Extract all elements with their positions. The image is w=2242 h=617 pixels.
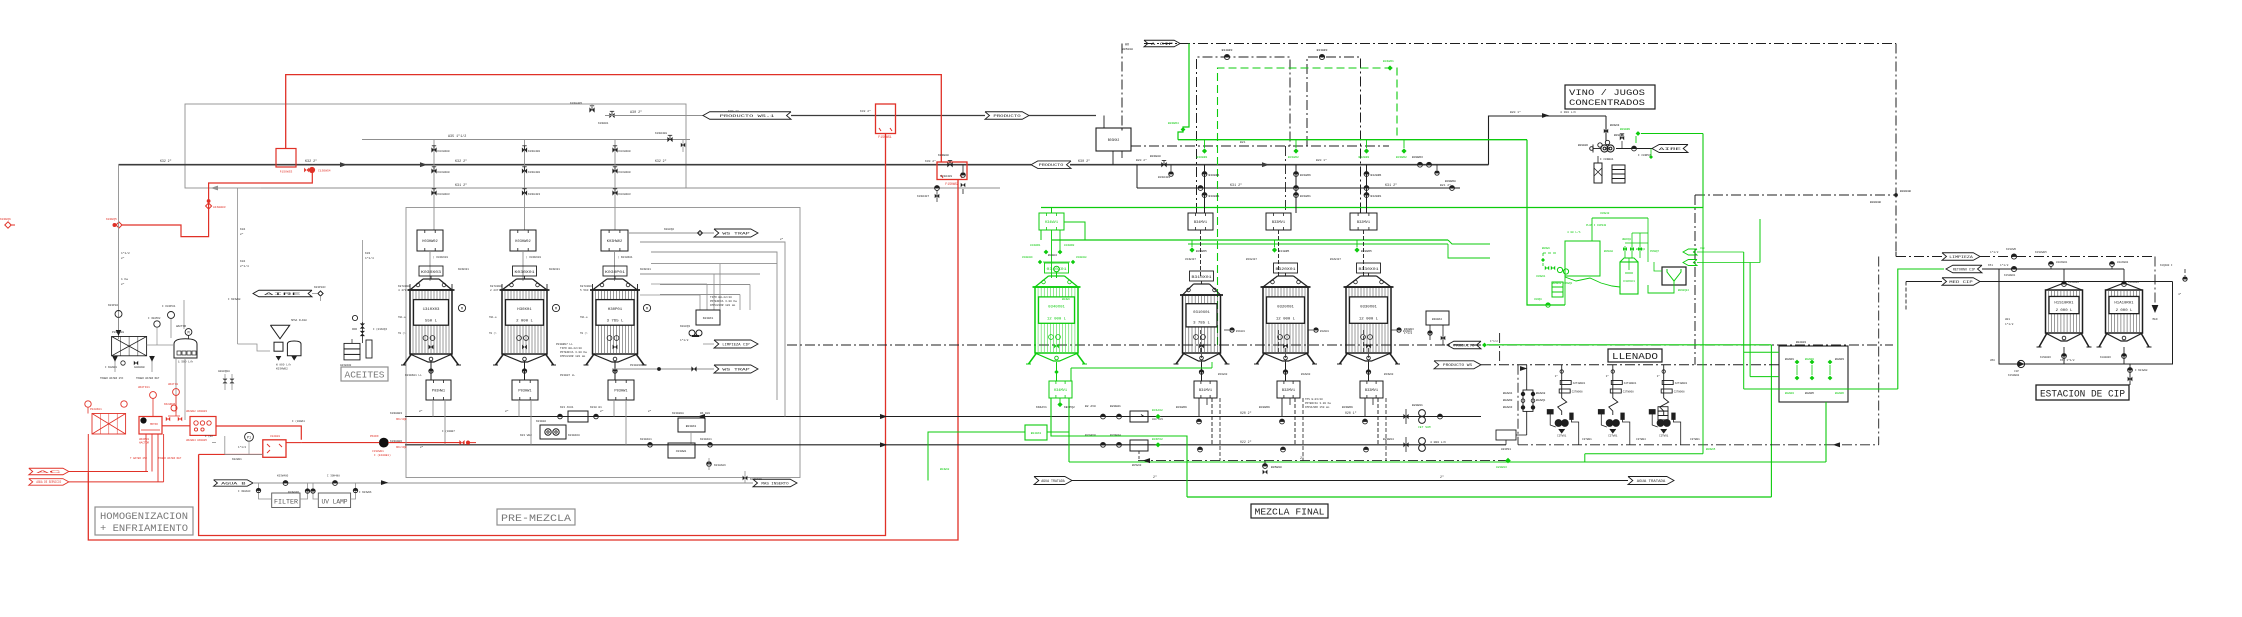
- svg-text:I K03W08: I K03W08: [228, 298, 241, 301]
- svg-text:H03HW02: H03HW02: [422, 240, 437, 244]
- svg-text:K31 2": K31 2": [1230, 183, 1242, 188]
- svg-text:M: M: [187, 332, 189, 336]
- wire dash drop 2: [1385, 398, 1387, 461]
- green main header y140: [1178, 139, 1527, 141]
- svg-text:I C09WA1: I C09WA1: [1600, 158, 1614, 161]
- wire manifold to green tank: [1030, 230, 1075, 278]
- svg-text:4 300 L/h: 4 300 L/h: [1560, 110, 1576, 114]
- label LLENADO: [1608, 349, 1662, 362]
- svg-text:P03HW1: P03HW1: [614, 389, 627, 393]
- svg-text:K03H400: K03H400: [438, 150, 450, 153]
- svg-text:TW1-a: TW1-a: [398, 316, 406, 319]
- svg-text:WS WH1: WS WH1: [700, 412, 710, 415]
- green return to row: [1585, 208, 1703, 462]
- wire llenado dash boundary: [1694, 195, 1696, 365]
- svg-text:AGUA TRATADA: AGUA TRATADA: [1637, 480, 1667, 484]
- svg-text:1"1/2: 1"1/2: [1990, 250, 1999, 254]
- svg-text:B32MV1: B32MV1: [1282, 389, 1295, 393]
- svg-text:1 Kw: 1 Kw: [121, 278, 128, 281]
- wire manifold to tank 1: [1278, 230, 1280, 352]
- svg-text:B20 2": B20 2": [1136, 158, 1147, 162]
- filler unit 0: [1547, 365, 1585, 445]
- svg-text:+ ENFRIAMIENTO: + ENFRIAMIENTO: [100, 523, 188, 535]
- svg-text:K03H601: K03H601: [549, 268, 560, 271]
- manifold premix1 bottom: [426, 361, 451, 400]
- svg-text:IMPULSOR 150 mm: IMPULSOR 150 mm: [1305, 406, 1330, 409]
- wire drop to rows 0: [1197, 398, 1212, 452]
- svg-text:034W409: 034W409: [1022, 256, 1033, 259]
- svg-text:K03W401: K03W401: [640, 438, 652, 441]
- svg-text:PRODUCTO WS-1: PRODUCTO WS-1: [720, 115, 775, 119]
- svg-text:K878000: K878000: [580, 285, 592, 288]
- svg-text:TW1-a: TW1-a: [489, 316, 497, 319]
- svg-text:M: M: [461, 308, 463, 312]
- svg-text:K03H400: K03H400: [619, 150, 631, 153]
- svg-text:K878000: K878000: [490, 285, 502, 288]
- svg-text:1": 1": [1657, 374, 1661, 378]
- svg-text:12 000 L: 12 000 L: [1276, 317, 1296, 321]
- svg-text:K02W01: K02W01: [232, 458, 242, 461]
- red pump manifold: [186, 410, 216, 442]
- svg-text:HO2W04 HO2W05: HO2W04 HO2W05: [186, 439, 207, 442]
- wire premix drop rows 1: [505, 400, 531, 445]
- wire CIP dash header top: [1144, 43, 1896, 45]
- row cluster A: [558, 406, 602, 422]
- svg-text:F1S0WS2: F1S0WS2: [945, 182, 958, 186]
- svg-text:B32WR9: B32WR9: [1259, 406, 1270, 409]
- uv box: [313, 483, 356, 508]
- svg-text:2 000 L: 2 000 L: [2116, 309, 2134, 313]
- wire dash col t4: [1285, 146, 1287, 213]
- wire premix col 0: [431, 140, 450, 231]
- wire left drop: [119, 165, 130, 339]
- info text tank3 mezcla: [1305, 397, 1331, 409]
- svg-text:3 785 L: 3 785 L: [1193, 321, 1211, 325]
- svg-text:B0000B: B0000B: [1900, 190, 1911, 193]
- svg-text:020W03: 020W03: [1496, 466, 1507, 469]
- svg-text:B060Q04: B060Q04: [1678, 289, 1689, 292]
- svg-text:I K03P01: I K03P01: [162, 305, 176, 308]
- svg-text:K31 2": K31 2": [455, 183, 467, 188]
- premix tank top stubs: [410, 284, 638, 290]
- svg-text:B02WR5: B02WR5: [1805, 392, 1815, 395]
- manifold tank1 bottom: [1194, 362, 1217, 398]
- red instruments top: [138, 383, 179, 416]
- svg-text:K03H400: K03H400: [528, 171, 540, 174]
- svg-text:2": 2": [121, 256, 125, 260]
- filler unit 1: [1598, 365, 1636, 445]
- valve on dash box 2: [1317, 49, 1328, 60]
- svg-text:B31W407: B31W407: [1246, 258, 1257, 261]
- svg-text:PRODUCTO WS: PRODUCTO WS: [1443, 364, 1472, 368]
- svg-text:RETORNO CIP: RETORNO CIP: [1953, 268, 1975, 272]
- svg-text:B20HW1: B20HW1: [1110, 405, 1121, 408]
- svg-text:I 30HA03: I 30HA03: [238, 490, 251, 493]
- svg-text:POTENCIA 3.00 Kw: POTENCIA 3.00 Kw: [710, 300, 737, 303]
- svg-text:K03W407: K03W407: [917, 195, 929, 198]
- svg-text:B05W00: B05W00: [1271, 466, 1282, 469]
- svg-text:K03P02: K03P02: [108, 304, 118, 307]
- wire main product header y165: [119, 164, 1489, 166]
- svg-text:B32WR6: B32WR6: [1371, 174, 1382, 177]
- premix tank motors: [398, 285, 651, 312]
- green from big box right: [1744, 269, 1944, 389]
- label MEZCLA FINAL: [1251, 504, 1328, 518]
- vino gear pump: [1578, 124, 1620, 161]
- wire dash box 1: [1197, 57, 1291, 213]
- wire premix drop rows 0: [419, 400, 445, 445]
- svg-text:034W408: 034W408: [1076, 256, 1087, 259]
- wire CIP dash mid: [1695, 190, 1911, 204]
- svg-text:C2TW04: C2TW04: [1636, 438, 1646, 441]
- svg-text:K03HA06: K03HA06: [714, 464, 726, 467]
- wire dash row y461: [1138, 460, 1508, 462]
- svg-text:MOTOR: MOTOR: [150, 423, 158, 426]
- svg-text:AIRE: AIRE: [264, 293, 301, 297]
- svg-text:H1A10R01: H1A10R01: [2114, 301, 2134, 305]
- manifold green tank bottom: [1049, 362, 1072, 398]
- svg-text:B02WR6: B02WR6: [1835, 392, 1845, 395]
- svg-text:1"1/2: 1"1/2: [238, 445, 246, 449]
- tank 0330X01: [1337, 263, 1400, 364]
- svg-text:B30WX2: B30WX2: [1432, 318, 1442, 321]
- svg-text:K1S0W5: K1S0W5: [2006, 248, 2016, 251]
- svg-text:HOMOGENIZACION: HOMOGENIZACION: [100, 511, 188, 523]
- svg-text:K03W80A: K03W80A: [672, 412, 684, 415]
- svg-text:I 30H488: I 30H488: [327, 475, 340, 478]
- svg-text:I (02: I (02: [205, 434, 213, 438]
- svg-text:| K03H601: | K03H601: [526, 255, 541, 259]
- green drop valve col 2: [1354, 240, 1372, 253]
- svg-text:TIPO WH-22/20: TIPO WH-22/20: [560, 346, 582, 350]
- svg-text:K03H601: K03H601: [458, 268, 469, 271]
- svg-text:K30 2": K30 2": [1078, 159, 1090, 164]
- svg-text:2"1/4: 2"1/4: [240, 264, 249, 268]
- svg-text:MED: MED: [2152, 318, 2157, 321]
- manifold tank3 bottom: [1360, 362, 1383, 398]
- red inner border link: [199, 453, 263, 455]
- green tank top fitting: [1022, 254, 1087, 278]
- green manifold feed y368: [1071, 362, 1212, 381]
- svg-text:K03H400: K03H400: [619, 171, 631, 174]
- green valve col 2: [1359, 140, 1370, 159]
- wire dash drop 1: [1302, 398, 1304, 461]
- green cip supply line: [1482, 343, 1771, 348]
- svg-text:C09Q0: C09Q0: [1534, 298, 1542, 301]
- manifold green tank top: [1039, 213, 1064, 230]
- cip valve top: [2006, 248, 2017, 259]
- svg-text:B31W00: B31W00: [1218, 373, 1228, 376]
- misc tiny labels batch: [420, 237, 1716, 471]
- green vino drop: [1649, 149, 1653, 160]
- green valve after pump row1: [1152, 409, 1163, 419]
- svg-text:MAS INSERTO: MAS INSERTO: [761, 482, 788, 486]
- svg-text:TOWER WATER RET: TOWER WATER RET: [158, 457, 182, 460]
- svg-text:H30P01: H30P01: [608, 308, 623, 312]
- valve corridor mid: [655, 132, 685, 152]
- skid 1500L: [147, 300, 197, 420]
- svg-text:K03W408: K03W408: [655, 132, 667, 135]
- wire cip line2: [1982, 263, 2124, 269]
- svg-text:ACEITES: ACEITES: [345, 371, 385, 381]
- wire funnel link: [228, 188, 270, 351]
- svg-text:LIMPIEZA CIP: LIMPIEZA CIP: [722, 343, 749, 347]
- svg-text:K080Q2: K080Q2: [664, 228, 674, 231]
- svg-text:HACTOR: HACTOR: [176, 325, 186, 328]
- svg-text:2 000 L: 2 000 L: [2056, 309, 2074, 313]
- svg-text:HO: HO: [1125, 44, 1129, 48]
- svg-text:K1S0W02: K1S0W02: [2008, 374, 2020, 377]
- svg-text:K03W401: K03W401: [700, 438, 712, 441]
- wire recirc drops: [640, 264, 720, 310]
- svg-text:550 L: 550 L: [425, 319, 438, 323]
- green bend right: [1448, 240, 1490, 258]
- svg-text:I (03A6QI: I (03A6QI: [373, 327, 387, 331]
- svg-text:B31MV1: B31MV1: [1199, 389, 1212, 393]
- svg-text:MEZCLA FINAL: MEZCLA FINAL: [1255, 507, 1325, 518]
- svg-text:CONCENTRADOS: CONCENTRADOS: [1569, 98, 1645, 108]
- tank 2000L: [493, 266, 556, 365]
- svg-text:0330X01: 0330X01: [1360, 305, 1378, 309]
- svg-text:B320X01: B320X01: [1276, 267, 1296, 271]
- misc dash arrows: [1144, 443, 1840, 463]
- wire filler dash encl: [1518, 257, 1879, 445]
- svg-text:NO4/4QB: NO4/4QB: [396, 446, 407, 449]
- green mini banners: [1636, 247, 1760, 266]
- banner cip 3: [1942, 278, 1980, 286]
- cip tank drops: [2062, 269, 2140, 286]
- svg-text:LIMPIEZA: LIMPIEZA: [1949, 256, 1974, 260]
- svg-text:B03W409: B03W409: [1158, 176, 1170, 179]
- homog misc black: [205, 419, 455, 443]
- arrow main header 2: [212, 163, 346, 190]
- svg-text:K1A0W06: K1A0W06: [2100, 356, 2111, 359]
- svg-text:K50 1"1/2: K50 1"1/2: [2060, 358, 2075, 362]
- aux box right of tanks: [1404, 311, 1449, 345]
- red valve right of box: [304, 167, 331, 172]
- svg-text:K03HW02: K03HW02: [607, 240, 622, 244]
- wire col drop 0: [1202, 165, 1219, 213]
- svg-text:B31WR6: B31WR6: [1300, 174, 1311, 177]
- svg-text:H01: H01: [2005, 318, 2010, 321]
- svg-text:020 1": 020 1": [1345, 411, 1357, 415]
- svg-text:NO4/4QB: NO4/4QB: [396, 418, 407, 421]
- svg-text:K03H403: K03H403: [438, 193, 450, 196]
- svg-text:B33WR9: B33WR9: [1342, 406, 1353, 409]
- red CIP supply top line: [286, 75, 942, 162]
- svg-text:TIPO WH-22/20: TIPO WH-22/20: [710, 295, 732, 299]
- svg-text:C2TW01: C2TW01: [1608, 435, 1618, 438]
- svg-text:C1P: C1P: [2014, 370, 2019, 373]
- aceites dosing cluster: [340, 315, 387, 367]
- banner cip 2: [1946, 265, 1982, 273]
- svg-text:P03HK08: P03HK08: [112, 331, 124, 334]
- svg-text:I 30AMX2: I 30AMX2: [148, 317, 161, 320]
- svg-text:C06W40: C06W40: [1600, 212, 1610, 215]
- svg-text:PRE-MEZCLA: PRE-MEZCLA: [501, 513, 572, 525]
- svg-text:UB06Q2: UB06Q2: [1622, 238, 1632, 241]
- valve right of frame: [1150, 155, 1173, 179]
- banner PRODUCTO header mid: [1031, 161, 1071, 169]
- svg-text:K03HW02: K03HW02: [515, 240, 530, 244]
- svg-text:AGUA DE SERVICIO: AGUA DE SERVICIO: [36, 481, 61, 485]
- svg-text:TW1-a: TW1-a: [580, 316, 588, 319]
- green feeds to big box: [1744, 352, 1779, 376]
- svg-text:B03WA0: B03WA0: [1150, 155, 1161, 158]
- frame PRE-MEZCLA section: [406, 208, 800, 478]
- frame top-left line corridor: [185, 104, 686, 188]
- svg-text:M: M: [646, 308, 648, 312]
- row end bits: [707, 458, 762, 483]
- svg-text:H30X01: H30X01: [517, 308, 532, 312]
- svg-text:KN4AV1: KN4AV1: [1036, 406, 1047, 409]
- cip bottom valves: [1990, 358, 2148, 385]
- red banner AC: [29, 468, 148, 475]
- svg-text:K03HW03: K03HW03: [390, 412, 402, 415]
- svg-text:3 765 L: 3 765 L: [607, 319, 625, 323]
- wire recirc step C: [640, 264, 777, 310]
- green mixer feed lines: [1041, 222, 1085, 240]
- red banner agua serv: [29, 479, 164, 486]
- svg-text:K03W601 LL: K03W601 LL: [405, 374, 422, 377]
- svg-text:A35 1"1/2: A35 1"1/2: [448, 134, 466, 139]
- banner upper header 2: [985, 112, 1029, 120]
- agua banner: [214, 480, 560, 487]
- svg-text:K32 2": K32 2": [305, 159, 317, 164]
- svg-text:K51: K51: [1988, 264, 1993, 267]
- svg-text:P02HK01: P02HK01: [90, 408, 102, 411]
- wire upper header y115 c: [1029, 115, 1096, 117]
- wire dash box 2: [1307, 57, 1361, 213]
- svg-text:K30 1": K30 1": [728, 109, 739, 113]
- svg-text:H1S10R01: H1S10R01: [2054, 301, 2074, 305]
- wire premix manifold drop 1: [523, 251, 541, 281]
- svg-text:LLENADO: LLENADO: [1612, 352, 1658, 362]
- svg-text:AIRE: AIRE: [1659, 148, 1681, 152]
- label VINO JUGOS: [1565, 85, 1655, 109]
- valve mid header pair2: [917, 186, 939, 202]
- flow meter row1: [1403, 404, 1442, 429]
- svg-text:1310X03: 1310X03: [423, 308, 441, 312]
- tank CIP 2: [2097, 290, 2152, 347]
- manifold premix2 bottom: [512, 361, 538, 400]
- green drop into manifold: [1051, 208, 1053, 214]
- red homogenizer: [139, 417, 162, 445]
- svg-text:12 000 L: 12 000 L: [1359, 317, 1379, 321]
- banner CIP header: [1122, 40, 1180, 51]
- tank 3765L: [584, 266, 647, 365]
- svg-text:C02W01: C02W01: [270, 435, 280, 438]
- svg-text:B330X01: B330X01: [1359, 267, 1379, 271]
- funnel box black: [1648, 262, 1689, 293]
- label pipe K31: [455, 183, 1397, 188]
- green valve col 1: [1288, 140, 1299, 159]
- svg-text:C2T1W001: C2T1W001: [1675, 382, 1688, 385]
- svg-text:B30WR2: B30WR2: [1197, 156, 1208, 159]
- svg-text:TW (>: TW (>: [398, 332, 406, 335]
- filler unit3 extra: [1658, 407, 1668, 425]
- cip pump: [2008, 360, 2025, 377]
- svg-text:B310X01: B310X01: [1192, 275, 1212, 279]
- svg-text:1"1/2: 1"1/2: [1490, 339, 1498, 343]
- svg-text:034WR2: 034WR2: [1064, 244, 1075, 247]
- valve corridor top2: [598, 111, 686, 125]
- label PRE-MEZCLA: [497, 509, 575, 525]
- green small tank: [1604, 218, 1660, 294]
- svg-text:B03WR4: B03WR4: [1168, 122, 1179, 125]
- svg-text:C2TW01: C2TW01: [1557, 435, 1567, 438]
- svg-text:023P01: 023P01: [1501, 448, 1511, 451]
- misc arrows rows: [699, 414, 886, 447]
- wire recirc step A: [640, 242, 785, 417]
- svg-text:A CIP: A CIP: [1151, 43, 1173, 47]
- svg-text:B03HX2: B03HX2: [1108, 138, 1120, 142]
- svg-text:B09WR0: B09WR0: [1620, 128, 1630, 131]
- svg-text:K03HW02: K03HW02: [276, 368, 288, 371]
- red link homog pump: [162, 403, 190, 426]
- valve right end y188: [1445, 180, 1456, 190]
- wire banner3 feed: [1906, 282, 1942, 311]
- svg-text:K03W460: K03W460: [277, 475, 289, 478]
- filter row valves: [238, 475, 387, 495]
- svg-text:022 2": 022 2": [1240, 440, 1252, 444]
- wire premix col 1: [522, 140, 541, 231]
- svg-text:K04: K04: [240, 228, 245, 231]
- svg-text:PRODUCTO: PRODUCTO: [1039, 164, 1064, 168]
- svg-text:| K03H601: | K03H601: [618, 255, 633, 259]
- svg-text:K04: K04: [240, 260, 245, 263]
- svg-text:B34MV1: B34MV1: [1194, 221, 1207, 225]
- svg-text:B33WR3: B33WR3: [1317, 49, 1328, 52]
- svg-text:IMPULSOR 120 mm: IMPULSOR 120 mm: [710, 304, 735, 307]
- svg-text:1"1/4: 1"1/4: [365, 256, 374, 260]
- green drop valve col 0: [1189, 240, 1207, 253]
- wire secondary header y188: [261, 187, 1000, 189]
- wire premix drop rows 2: [600, 400, 626, 445]
- banner limpieza: [703, 340, 758, 348]
- svg-text:B0500H: B0500H: [1122, 48, 1133, 51]
- green drop right: [1068, 398, 1070, 462]
- svg-text:020 AV0: 020 AV0: [1152, 418, 1163, 421]
- svg-text:K30 2": K30 2": [925, 159, 936, 163]
- red return riser outer: [88, 180, 958, 541]
- tank CIP 1: [2037, 290, 2092, 347]
- wire center dash axis: [787, 344, 1893, 346]
- svg-text:TOWER WATER 25C: TOWER WATER 25C: [100, 377, 124, 380]
- wire tank axis dash 1: [1285, 345, 1287, 364]
- svg-text:POTENCIA 3.00 Kw: POTENCIA 3.00 Kw: [560, 351, 587, 354]
- svg-text:B34A62: B34A62: [1152, 409, 1163, 412]
- svg-text:K03WA0: K03WA0: [938, 154, 949, 157]
- manifold tank2 bottom: [1277, 362, 1300, 398]
- svg-text:2": 2": [121, 282, 125, 286]
- svg-text:1": 1": [1555, 374, 1559, 378]
- svg-text:K03H W1: K03H W1: [590, 406, 602, 409]
- svg-text:K32 2": K32 2": [860, 109, 871, 113]
- vino filter stack: [1612, 165, 1625, 183]
- green vino loop: [1702, 134, 1704, 209]
- green riser top: [1168, 44, 1189, 140]
- svg-text:1 500 L/h: 1 500 L/h: [178, 360, 193, 364]
- svg-text:I (02WA1: I (02WA1: [292, 419, 305, 423]
- svg-text:K03H400: K03H400: [528, 150, 540, 153]
- svg-text:C2TW01: C2TW01: [1582, 438, 1592, 441]
- svg-text:B20 1": B20 1": [1510, 110, 1521, 114]
- svg-text:K03P04C: K03P04C: [314, 286, 326, 289]
- green drops to llenado: [1744, 219, 1760, 389]
- svg-text:B34WR3: B34WR3: [1222, 49, 1233, 52]
- svg-text:B20W01: B20W01: [1412, 404, 1423, 407]
